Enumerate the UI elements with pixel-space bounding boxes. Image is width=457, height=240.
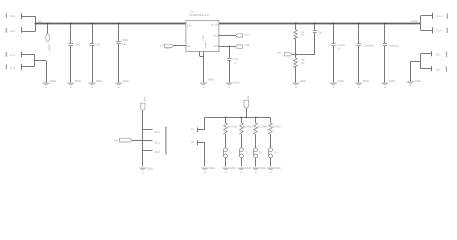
svg-text:AC500: AC500 <box>272 126 281 129</box>
connector J2 pin 2 label <box>436 29 442 32</box>
U1 center rotated text GND <box>202 35 205 42</box>
svg-text:GND3: GND3 <box>202 35 205 42</box>
netport flag FB <box>284 53 292 56</box>
wire R12 to LED2 <box>241 134 243 148</box>
svg-text:GND: GND <box>147 166 153 170</box>
wire LED3 to ground <box>255 158 257 167</box>
U1 pin EN name <box>187 45 191 48</box>
wire J3 pin1 horizontal <box>421 53 432 55</box>
U1 ground stub 1 <box>199 52 201 57</box>
svg-text:25-1: 25-1 <box>154 130 160 134</box>
resistor R12 label <box>243 126 253 129</box>
svg-text:PWR: PWR <box>143 97 146 103</box>
connector J3 body pin 1 <box>446 52 447 58</box>
svg-text:1P8EN: 1P8EN <box>165 47 171 50</box>
wire LED1 to ground <box>225 158 227 167</box>
svg-text:J1-1: J1-1 <box>10 54 16 57</box>
wire P2 pin1 to join <box>22 16 36 18</box>
netport flag PWR pointing down <box>140 103 145 110</box>
U1 ground stub 2 <box>203 52 205 57</box>
connector J3 pin 1 label <box>435 54 441 57</box>
svg-text:+2B: +2B <box>277 51 282 54</box>
capacitor C11 wire top <box>384 24 386 43</box>
connector J2 body pin 2 <box>447 28 448 33</box>
svg-text:ON: ON <box>114 139 118 142</box>
capacitor C7 wire bottom <box>333 46 335 83</box>
LED D1 label <box>229 152 233 155</box>
connector J4 pin 1 label <box>191 128 195 131</box>
connector J4 pin 2 label <box>191 141 195 144</box>
resistor R13 label <box>258 126 268 129</box>
U1 designator label <box>190 11 194 14</box>
svg-text:AC500o: AC500o <box>228 126 238 129</box>
wire Q1 vertical channel <box>142 129 144 166</box>
net name C3B <box>244 44 249 47</box>
wire J1 tap down to ground <box>46 61 48 83</box>
ground under C9 <box>115 79 129 88</box>
svg-text:U2-5: U2-5 <box>436 29 442 32</box>
net label ON <box>114 139 118 142</box>
svg-text:GND: GND <box>50 79 56 83</box>
svg-text:PAD67: PAD67 <box>204 42 207 49</box>
capacitor C11 label <box>389 44 399 47</box>
connector Q5 pin 2 label <box>154 141 160 145</box>
capacitor C150 label line 2 <box>234 61 238 64</box>
resistor R2 label line 1 <box>301 59 305 62</box>
svg-text:4SS: 4SS <box>213 34 218 37</box>
connector Q5 pin 3 label <box>154 150 160 154</box>
ground under LED4 <box>267 166 280 173</box>
capacitor C150 label line 1 <box>232 58 239 61</box>
netport flag C3B <box>235 45 242 48</box>
ground under Q1 <box>139 166 153 172</box>
resistor R2 zigzag <box>294 58 298 67</box>
connector J2 pin 1 label <box>436 15 442 18</box>
svg-text:GND: GND <box>209 166 215 170</box>
resistor R11 label <box>228 126 238 129</box>
resistor R4 label line 2 <box>301 34 304 37</box>
wire R2 to ground <box>295 67 297 83</box>
wire J2 pin1 horizontal <box>421 15 433 17</box>
svg-text:GND: GND <box>260 166 266 170</box>
capacitor C6 plates <box>313 31 317 33</box>
wire main VOUT bus right segment <box>219 23 421 25</box>
svg-text:GND: GND <box>234 80 240 84</box>
wire LED4 to ground <box>270 158 272 167</box>
resistor R14 label <box>272 126 281 129</box>
connector J2 pin 1 tick <box>432 13 434 19</box>
svg-text:AC500o: AC500o <box>258 126 268 129</box>
junction dots on bus <box>47 23 386 25</box>
connector J1 pin 1 tick <box>21 52 23 58</box>
node VIN junction at bus start <box>35 23 37 25</box>
capacitor C2 wire top <box>92 24 94 43</box>
ground under LED2 <box>238 166 251 173</box>
wire LED rail <box>205 117 271 119</box>
U1 center rotated text PAD <box>204 42 207 49</box>
capacitor C9 label line 1 <box>121 39 128 42</box>
capacitor C2 wire bottom <box>92 46 94 83</box>
connector P2 pin 2 tick <box>21 27 23 33</box>
connector J3 join vertical <box>420 54 422 69</box>
LED D1 <box>224 148 228 158</box>
wire FB netport to divider <box>292 54 296 56</box>
net name USB5V vertical text <box>48 44 51 52</box>
net label 1P8 <box>160 45 165 48</box>
connector J3 pin 1 tick <box>431 51 433 56</box>
capacitor C1 plates <box>69 44 73 46</box>
U1 pin SS name <box>213 34 218 37</box>
svg-text:C5U: C5U <box>95 43 100 46</box>
connector J3 body pin 2 <box>446 66 447 72</box>
svg-text:GND: GND <box>414 79 420 83</box>
svg-text:C3B: C3B <box>244 44 249 47</box>
svg-text:EN: EN <box>187 45 191 48</box>
wire J4 pin2 horizontal <box>197 142 205 144</box>
svg-text:J3-1: J3-1 <box>435 54 441 57</box>
connector P2 pin 1 tick <box>21 13 23 19</box>
svg-text:1.2: 1.2 <box>338 47 342 50</box>
svg-text:U2-4: U2-4 <box>436 15 442 18</box>
wire P2 join vertical <box>35 16 37 31</box>
net name 4G2 <box>244 34 249 37</box>
capacitor C150 wire top <box>229 46 231 58</box>
connector P2 pin 2 label <box>10 30 16 33</box>
netport flag 3V3 pointing down <box>244 100 249 108</box>
capacitor C2 label <box>95 43 100 46</box>
connector Q5 pin 1 label <box>154 130 160 134</box>
wire PWR flag down <box>142 111 144 130</box>
svg-text:GND: GND <box>96 79 102 83</box>
svg-text:U2-2: U2-2 <box>10 30 16 33</box>
ground under C150 <box>226 80 240 87</box>
svg-text:GND: GND <box>75 79 81 83</box>
capacitor C10 wire bottom <box>358 46 360 83</box>
wire J3 pin2 horizontal <box>421 68 432 70</box>
LED D2 <box>240 148 244 158</box>
net label FB2 <box>277 51 282 54</box>
ground under LED3 <box>252 166 265 173</box>
net label L1 <box>37 21 42 24</box>
svg-text:C9R1: C9R1 <box>121 39 128 42</box>
wire R4 to node FB <box>295 39 297 58</box>
U1 ground stub bridge <box>200 56 204 58</box>
wire divider junction to C6 <box>296 54 315 56</box>
wire Q1 source horizontal <box>143 150 153 152</box>
capacitor C1 wire top <box>70 24 72 43</box>
capacitor C11 plates <box>383 44 387 46</box>
connector J3 pin 2 tick <box>431 66 433 71</box>
svg-text:1.2u: 1.2u <box>121 43 127 46</box>
capacitor C7 label line 1 <box>337 44 346 47</box>
svg-text:J3-4: J3-4 <box>435 68 441 71</box>
capacitor C6 label <box>319 31 323 34</box>
capacitor C10 label <box>364 44 374 47</box>
wire J1 pin1 to join <box>22 54 35 56</box>
node FB junction <box>228 46 230 48</box>
wire U1 FB pin to netport <box>219 46 236 48</box>
netport flag ON pointing right <box>120 138 132 142</box>
capacitor C9 plates <box>116 42 120 44</box>
capacitor C6 wire bottom <box>314 33 316 55</box>
wire P2 pin2 to join <box>22 31 36 33</box>
svg-text:D008: D008 <box>411 20 418 23</box>
svg-text:GND: GND <box>300 79 306 83</box>
wire main VIN/VOUT bus left segment <box>36 23 186 25</box>
capacitor C11 pin 1 number <box>381 43 383 46</box>
svg-text:25-2: 25-2 <box>154 141 160 145</box>
wire J3 tap down to ground <box>410 61 412 81</box>
wire J1 tap horizontal <box>34 60 46 62</box>
resistor R4 label line 1 <box>301 31 305 34</box>
capacitor C9 pin 1 number <box>116 41 118 44</box>
wire 3V3 flag down to rail <box>246 108 248 117</box>
connector P2 body pin 2 <box>6 28 7 33</box>
connector J1 pin 1 label <box>10 54 16 57</box>
connector J4 join top <box>204 117 206 130</box>
wire Q1 drain horizontal <box>143 129 153 131</box>
node FB divider junction <box>295 54 297 56</box>
wire J1 join vertical <box>34 54 36 67</box>
svg-text:GND: GND <box>337 79 343 83</box>
connector J3 pin 2 label <box>435 68 441 71</box>
wire R11 to LED1 <box>225 134 227 148</box>
wire J1 pin2 to join <box>22 66 35 68</box>
capacitor C11 wire bottom <box>384 46 386 83</box>
ground J3 <box>407 79 421 86</box>
svg-text:USB5V: USB5V <box>48 44 51 52</box>
svg-text:GND: GND <box>123 79 129 83</box>
wire EN flag to U1 <box>173 45 186 47</box>
wire ON flag to gate <box>132 140 153 142</box>
LED D3 label <box>259 152 263 155</box>
wire J4 pin2 down to ground <box>204 143 206 167</box>
netport EN sub label <box>165 47 171 50</box>
svg-text:U2-1: U2-1 <box>10 15 16 18</box>
svg-text:2K: 2K <box>301 62 304 65</box>
capacitor C7 wire top <box>333 24 335 43</box>
junction dots on rail <box>225 117 257 119</box>
capacitor C9 wire bottom <box>118 44 120 83</box>
capacitor C150 plates <box>227 59 231 61</box>
svg-text:AC500o: AC500o <box>243 126 253 129</box>
connector J1 pin 2 tick <box>21 64 23 70</box>
wire J2 pin2 horizontal <box>421 30 433 32</box>
resistor R4 wire top <box>295 24 297 29</box>
connector J4 pin 1 tick <box>197 127 199 132</box>
ground under C11 <box>381 79 395 88</box>
LED string 3: resistor R13 <box>254 118 258 135</box>
wire J3 tap horizontal <box>410 61 420 63</box>
ground under C7 <box>330 79 344 88</box>
wire U1 ground down <box>203 56 205 82</box>
svg-text:C1R1: C1R1 <box>74 43 81 46</box>
wire R13 to LED3 <box>255 134 257 148</box>
ground J4 <box>201 166 214 173</box>
wire bus end down to J2 pin2 <box>420 24 422 31</box>
LED D4 <box>269 148 273 158</box>
LED string 1: resistor R11 <box>224 118 228 135</box>
netport flag 4G2 <box>236 34 243 37</box>
svg-text:1K: 1K <box>301 34 304 37</box>
capacitor C1 label <box>74 43 81 46</box>
LED D3 <box>254 148 258 158</box>
connector J1 body pin 1 <box>6 52 7 57</box>
capacitor C10 plates <box>357 44 361 46</box>
capacitor C1 pin 1 number <box>68 43 70 46</box>
LED string 4: resistor R14 <box>269 118 273 135</box>
ground under C10 <box>355 79 369 88</box>
ground under C1 <box>67 79 81 88</box>
wire R14 to LED4 <box>270 134 272 148</box>
LED D4 label <box>274 152 278 155</box>
U1 part number label <box>189 13 209 17</box>
resistor R2 label line 2 <box>301 62 304 65</box>
connector J2 body pin 1 <box>447 13 448 18</box>
capacitor C10 pin 1 number <box>355 43 357 46</box>
net name 3V3 vertical text bottom-right <box>246 95 249 100</box>
capacitor C150 wire bottom <box>229 61 231 83</box>
op-amp U1 regulator box <box>186 21 219 52</box>
U1 pin FB name <box>214 45 219 48</box>
capacitor C10 wire top <box>358 24 360 43</box>
capacitor C9 wire top <box>118 24 120 40</box>
capacitor C2 pin 1 number <box>89 43 91 46</box>
wire J4 pin1 horizontal <box>197 129 205 131</box>
svg-text:VL,SO: VL,SO <box>211 23 219 26</box>
capacitor C7 plates <box>331 44 335 46</box>
netport flag EN <box>165 44 173 47</box>
connector J1 pin 2 label <box>10 67 16 70</box>
svg-text:GND: GND <box>245 166 251 170</box>
svg-text:J1-2: J1-2 <box>10 67 16 70</box>
capacitor C6 wire top <box>314 24 316 30</box>
capacitor C7 label line 2 <box>338 47 342 50</box>
capacitor C7 pin 1 number <box>329 43 331 46</box>
connector P2 body pin 1 <box>6 13 7 18</box>
connector P2 pin 1 label <box>10 15 16 18</box>
wire bus to netport F1 <box>47 24 49 34</box>
U1 pin VIN name <box>187 24 192 27</box>
svg-text:C10R2U: C10R2U <box>364 44 374 47</box>
svg-text:1 IN: 1 IN <box>187 24 192 27</box>
svg-text:C11R2U: C11R2U <box>389 44 399 47</box>
ground under C2 <box>89 79 103 88</box>
wire bus end up to J2 pin1 <box>420 16 422 24</box>
svg-text:GND: GND <box>274 166 280 170</box>
wire U1 SS pin to netport <box>219 35 236 37</box>
svg-text:SGM2212-3.3: SGM2212-3.3 <box>189 13 209 17</box>
svg-text:1.2: 1.2 <box>234 61 238 64</box>
LED D2 label <box>245 152 249 155</box>
net label D008 at bus end <box>411 20 418 23</box>
U1 pin VOUT name <box>211 23 219 26</box>
svg-text:4G2: 4G2 <box>244 34 249 37</box>
ground under LED1 <box>222 166 235 173</box>
capacitor C9 label line 2 <box>121 43 127 46</box>
connector J1 body pin 2 <box>6 64 7 69</box>
netport flag USB5V <box>46 34 50 42</box>
LED string 2: resistor R12 <box>240 118 244 135</box>
wire LED2 to ground <box>241 158 243 167</box>
ground under U1 <box>200 78 214 88</box>
ground J1 <box>42 79 56 88</box>
net name PWR vertical text bottom-left <box>143 97 146 103</box>
svg-text:GND: GND <box>230 166 236 170</box>
resistor R4 zigzag <box>294 30 298 39</box>
connector J4 pin 2 tick <box>197 140 199 145</box>
svg-text:2FB: 2FB <box>214 45 219 48</box>
svg-text:GND: GND <box>208 78 214 82</box>
capacitor C1 wire bottom <box>70 46 72 83</box>
svg-text:1P8: 1P8 <box>160 45 165 48</box>
connector J2 pin 2 tick <box>432 27 434 33</box>
capacitor C2 plates <box>90 44 94 46</box>
connector Q5 body bar <box>165 127 166 155</box>
ground under R2 <box>292 79 306 88</box>
svg-text:25-3: 25-3 <box>154 150 160 154</box>
svg-text:GND: GND <box>363 79 369 83</box>
svg-text:GND: GND <box>389 79 395 83</box>
